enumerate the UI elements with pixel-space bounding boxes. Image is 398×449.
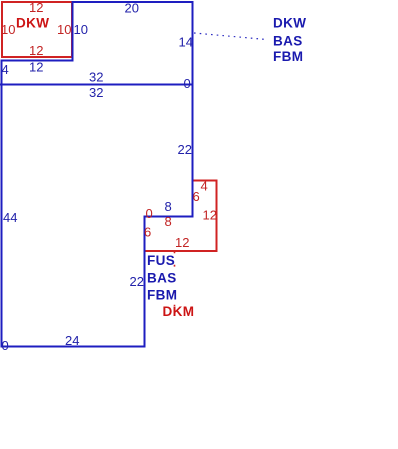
svg-text:BAS: BAS	[147, 271, 177, 286]
svg-text:0: 0	[184, 76, 191, 91]
svg-text:10: 10	[74, 22, 88, 37]
svg-text:6: 6	[144, 225, 151, 240]
svg-text:12: 12	[29, 0, 43, 15]
svg-text:0: 0	[2, 338, 9, 353]
svg-text:22: 22	[130, 274, 144, 289]
interior floor line 32	[0, 84, 193, 86]
svg-text:FBM: FBM	[147, 288, 177, 303]
svg-text:24: 24	[65, 333, 79, 348]
svg-text:20: 20	[125, 1, 139, 16]
svg-text:DKW: DKW	[16, 16, 49, 31]
svg-text:10: 10	[1, 22, 15, 37]
svg-text:32: 32	[89, 85, 103, 100]
svg-text:BAS: BAS	[273, 34, 303, 49]
svg-text:FBM: FBM	[273, 49, 303, 64]
svg-text:4: 4	[2, 62, 9, 77]
svg-text:DKW: DKW	[273, 16, 306, 31]
svg-text:DKM: DKM	[163, 304, 195, 319]
svg-text:10: 10	[57, 22, 71, 37]
svg-text:FUS: FUS	[147, 253, 175, 268]
svg-text:12: 12	[29, 43, 43, 58]
svg-text:44: 44	[3, 210, 17, 225]
svg-text:4: 4	[201, 179, 208, 194]
svg-text:0: 0	[146, 206, 153, 221]
svg-text:12: 12	[175, 235, 189, 250]
svg-text:8: 8	[165, 214, 172, 229]
svg-text:14: 14	[179, 35, 193, 50]
red dotted leader to DKM	[174, 252, 176, 307]
svg-text:12: 12	[203, 208, 217, 223]
svg-text:8: 8	[165, 199, 172, 214]
svg-text:12: 12	[29, 60, 43, 75]
svg-text:22: 22	[178, 142, 192, 157]
svg-text:6: 6	[193, 189, 200, 204]
room lower-right red outline	[145, 181, 217, 252]
room DKW red outline	[2, 2, 72, 57]
blue dotted leader to legend	[194, 33, 267, 40]
building blue outline	[2, 2, 193, 347]
svg-text:32: 32	[89, 70, 103, 85]
